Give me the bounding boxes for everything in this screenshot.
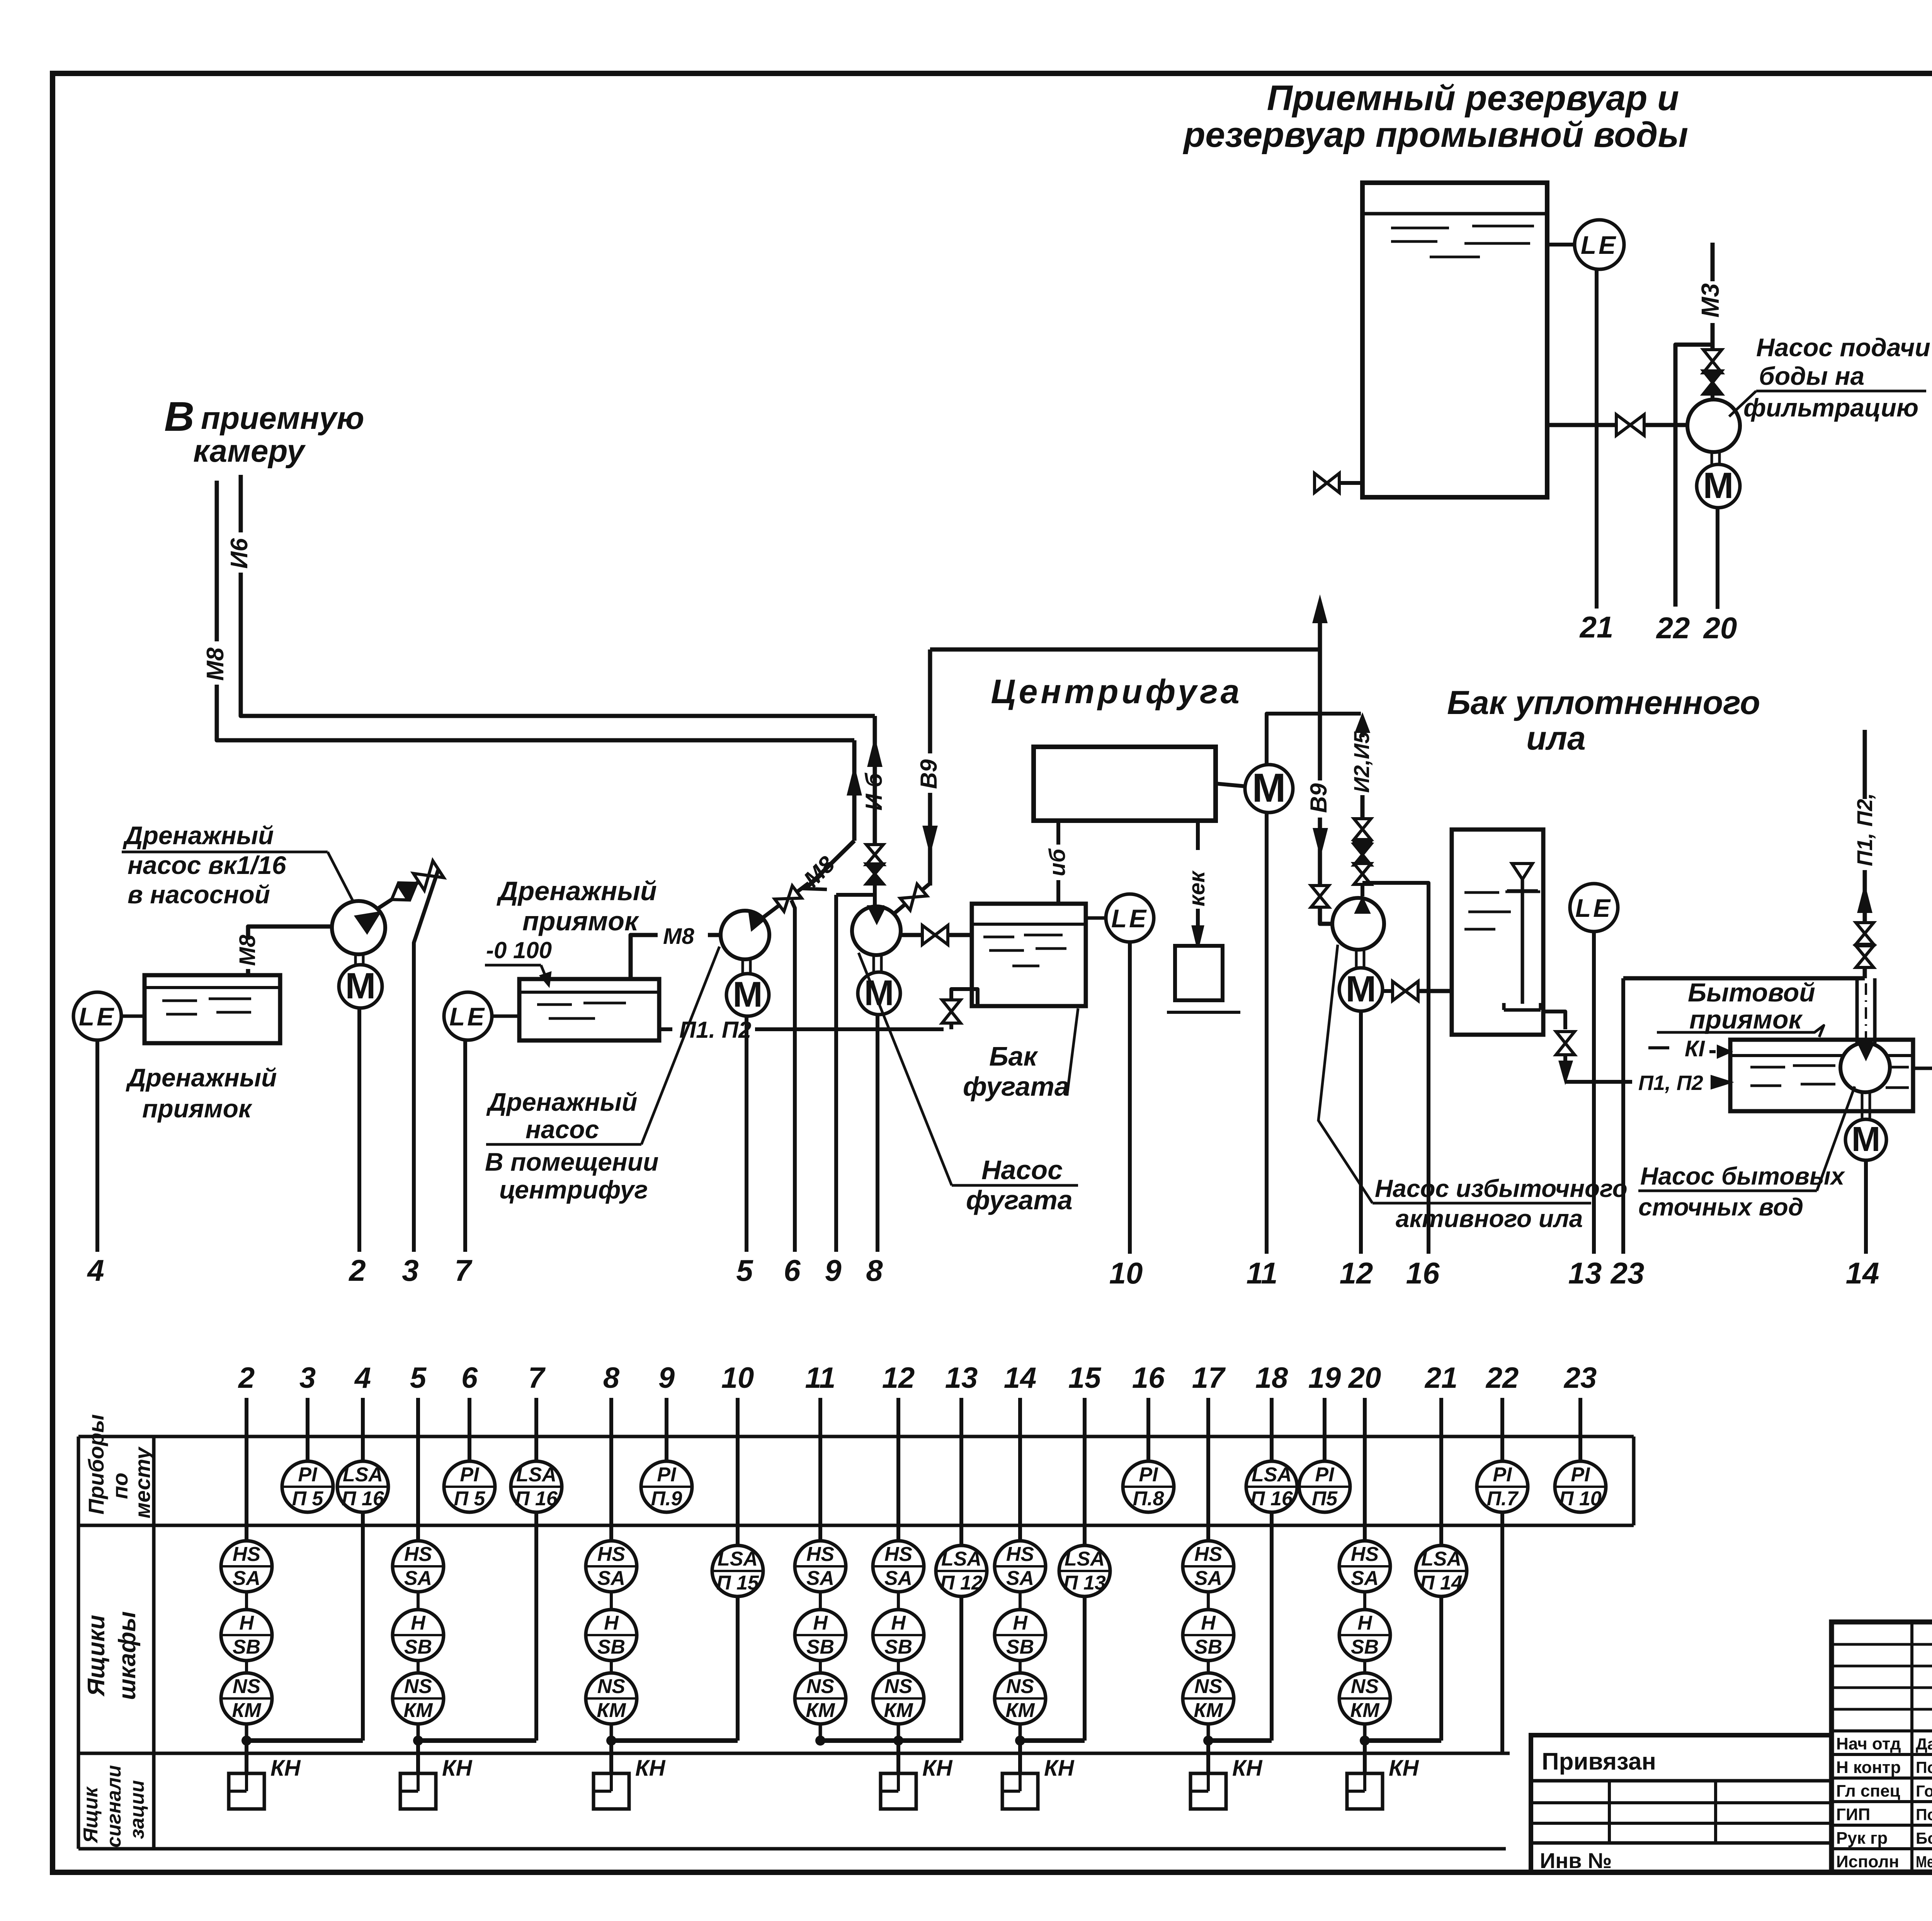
svg-text:PI: PI [1139,1464,1158,1486]
junction dot col 2 [241,1736,252,1746]
instrument PI П5 col 19 [1299,1461,1350,1512]
instrument NS/KM col 8 [586,1673,637,1724]
svg-text:LE: LE [79,1002,116,1031]
leader bak fugata [1067,1008,1078,1093]
svg-text:21: 21 [1579,610,1614,644]
underline [1638,1190,1817,1192]
instrument H/SB col 8 [586,1610,637,1661]
pump3 discharge triangle [750,913,763,930]
instrument H/SB col 17 [1183,1610,1234,1661]
tank: priyomny rezervuar [1362,183,1547,497]
label leader [1729,391,1756,416]
svg-text:HS: HS [806,1543,835,1566]
wire column 20 into cabinets row [1363,1398,1367,1541]
svg-text:КН: КН [635,1756,666,1781]
svg-text:23: 23 [1610,1256,1645,1290]
wire B9 into pump5 [1320,906,1333,924]
svg-text:H: H [604,1612,619,1634]
pump5 top triangle [1356,899,1369,913]
wire column 22 down to signal row [1500,1512,1504,1753]
wire column 11 into cabinets row [818,1398,822,1541]
KN box col 17 [1190,1773,1226,1809]
svg-text:Постникова: Постникова [1916,1758,1932,1776]
instrument HS/SA col 5 [393,1541,444,1592]
svg-text:В помещении: В помещении [485,1147,658,1176]
svg-text:КМ: КМ [884,1699,913,1722]
svg-text:PI: PI [657,1464,677,1486]
svg-text:П.7: П.7 [1487,1487,1519,1510]
svg-text:HS: HS [404,1543,432,1566]
signal line 10 [1128,942,1132,1254]
svg-text:NS: NS [884,1675,913,1698]
pump 1: drain pump VK1/16 [332,901,385,954]
wire LE tank1 [121,1015,145,1018]
wire column 14 into cabinets row [1018,1398,1022,1541]
junction dot col 14 [1015,1736,1025,1746]
wire I2,I5 riser [1361,730,1365,820]
svg-text:П 16: П 16 [1250,1487,1293,1510]
tank: bak fugata [972,904,1086,1006]
svg-text:H: H [1357,1612,1372,1634]
svg-text:КМ: КМ [806,1699,835,1722]
svg-text:22: 22 [1656,611,1690,645]
valve pump5 to tank [1393,981,1418,1001]
valve I6 stack 2 (filled) [866,864,883,884]
signal line 23 vertical [1621,978,1625,1254]
water line bytovoy [1730,1054,1913,1057]
valve P1P2 1 [1856,923,1874,944]
svg-text:иб: иб [1045,848,1070,876]
svg-text:13: 13 [1568,1256,1602,1290]
wire line 22 jog [1675,345,1713,607]
wire column 12 into cabinets row [896,1398,900,1541]
wire LSA col 15 down [1083,1596,1087,1741]
svg-text:16: 16 [1406,1256,1440,1290]
sig row line [1832,1847,1932,1850]
svg-text:22: 22 [1485,1362,1519,1394]
svg-text:SB: SB [1006,1636,1034,1658]
squiggles tank1 [162,1000,197,1002]
wire P1P2 stub [659,1027,672,1031]
svg-text:LSA: LSA [718,1548,758,1570]
wire [245,1661,248,1673]
svg-text:КI: КI [1685,1036,1706,1061]
valve I2I5 1 [1354,819,1371,840]
svg-text:Насос подачи: Насос подачи [1756,333,1930,362]
signal line 16 [1362,883,1429,1254]
leader to pump5 [1318,945,1372,1203]
svg-text:17: 17 [1192,1362,1226,1394]
svg-text:6: 6 [784,1253,801,1287]
pump4 top triangle [870,909,884,923]
wire [1363,1724,1367,1741]
instrument PI П.7 col 22 [1477,1461,1528,1512]
svg-text:по: по [108,1473,132,1499]
wire column 5 into cabinets row [416,1398,420,1541]
level sensor LE bak uplotnennogo [1570,884,1618,932]
svg-text:М3: М3 [1696,283,1724,318]
valve tank outlet [1556,1032,1575,1055]
wire LSA col 13 down [959,1596,963,1741]
svg-text:М: М [345,966,376,1006]
instrument PI П 5 col 6 [444,1461,495,1512]
wire pump1 suction [248,926,333,940]
valve P1P2 2 [1856,946,1874,967]
instrument LSA П 14 col 21 [1416,1545,1467,1596]
wire column 22 to instrument [1500,1398,1504,1461]
instrument NS/KM col 2 [221,1673,272,1724]
wire [1207,1592,1210,1610]
KN box col 12 [881,1773,916,1809]
svg-text:SB: SB [404,1636,432,1658]
wire [1207,1661,1210,1673]
svg-text:КН: КН [1389,1756,1419,1781]
svg-text:Гл спец: Гл спец [1836,1782,1900,1800]
signal line 6 [791,900,795,1252]
wire [1019,1592,1022,1610]
wire junction cols 2-4 [247,1738,363,1743]
svg-text:фугата: фугата [966,1185,1073,1215]
label K1 + arrow [1648,1046,1669,1049]
svg-text:LSA: LSA [1252,1464,1292,1486]
wire [1019,1661,1022,1673]
instrument LSA П 16 col 7 [511,1461,562,1512]
svg-text:12: 12 [882,1362,915,1394]
svg-text:шкафы: шкафы [114,1611,141,1700]
motor M pump 3 [726,974,769,1016]
wire column 21 [1439,1398,1443,1545]
svg-text:SA: SA [1351,1567,1379,1589]
squiggles bak uplotnennogo [1464,891,1499,894]
wire tank outlet [1543,1011,1565,1029]
wire to KN box col 2 [245,1741,248,1773]
sig row line [1832,1776,1932,1780]
svg-text:4: 4 [354,1362,371,1394]
svg-text:H: H [891,1612,906,1634]
table label column divider [152,1436,156,1849]
wire I6 vertical drop [873,716,877,842]
wire tank A to pump [1547,423,1688,427]
wire LE bak fugata [1086,916,1106,920]
pump6 standpipe [1855,978,1859,1043]
svg-text:LSA: LSA [516,1464,556,1486]
wire pump4 suction [901,933,972,937]
svg-text:в насосной: в насосной [128,880,270,909]
wire junction cols 20-21 [1365,1738,1441,1743]
signal line 2 [357,1008,361,1252]
svg-text:П1, П2: П1, П2 [1638,1071,1703,1095]
KN box col 14 [1002,1773,1038,1809]
svg-text:КМ: КМ [232,1699,262,1722]
wire kek drop [1196,821,1200,850]
wire LSA col 21 down [1439,1596,1443,1741]
svg-text:14: 14 [1004,1362,1037,1394]
svg-text:PI: PI [1315,1464,1335,1486]
svg-text:Дренажный: Дренажный [486,1088,637,1116]
valve pump4-B9 (rotated bowtie) [888,878,934,920]
svg-text:М: М [1345,969,1376,1010]
svg-text:NS: NS [806,1675,835,1698]
tank: drain pit 1 [145,975,280,1043]
level sensor LE tank2 [444,992,492,1040]
svg-text:центрифуг: центрифуг [499,1175,648,1204]
arrowhead K1 [1718,1046,1730,1057]
svg-text:И6: И6 [226,538,253,569]
svg-text:HS: HS [1194,1543,1223,1566]
wire junction cols 8-10 [611,1738,738,1743]
wire LSA col 18 down to junction [1270,1512,1274,1741]
signal line 20 [1716,508,1719,609]
instrument LSA П 15 col 10 [712,1545,763,1596]
svg-text:H: H [813,1612,828,1634]
svg-text:Постникова: Постникова [1916,1805,1932,1824]
instrument PI П.8 col 16 [1123,1461,1174,1512]
instrument LSA П 13 col 15 [1059,1545,1110,1596]
svg-text:H: H [411,1612,426,1634]
svg-text:Центрифуга: Центрифуга [991,672,1242,711]
table top line [78,1435,1634,1438]
svg-text:NS: NS [1351,1675,1379,1698]
leader bytovoy [1657,1025,1824,1037]
svg-text:11: 11 [1247,1256,1278,1290]
wire LSA col 10 down [736,1596,740,1741]
svg-text:боды на: боды на [1759,362,1864,390]
instrument H/SB col 5 [393,1610,444,1661]
svg-text:3: 3 [402,1253,418,1287]
valve pump4 suction [922,925,948,945]
svg-text:П 16: П 16 [515,1487,558,1510]
svg-text:КН: КН [922,1756,953,1781]
svg-text:SA: SA [1006,1567,1034,1589]
svg-text:приямок: приямок [1689,1005,1803,1034]
wire I6 drop [1056,821,1060,845]
svg-text:PI: PI [1571,1464,1590,1486]
kek container box [1175,946,1223,1000]
svg-text:HS: HS [884,1543,913,1566]
title block outline [1832,1622,1932,1872]
wire tee to line 9 [836,893,876,897]
flow arrow down B9 main [1314,829,1327,853]
wire to KN box col 5 [416,1741,420,1773]
wire column 3 to instrument [306,1398,310,1461]
water squiggles tank A [1391,227,1449,229]
svg-text:3: 3 [299,1362,316,1394]
svg-text:зации: зации [126,1780,148,1839]
wire column 17 into cabinets row [1206,1398,1210,1541]
sig row line [1832,1753,1932,1756]
instrument H/SB col 11 [795,1610,846,1661]
level sensor LE bak fugata [1106,894,1154,942]
water line tank2 [519,991,659,994]
svg-text:КМ: КМ [1350,1699,1380,1722]
svg-text:КН: КН [270,1756,301,1781]
svg-text:Дренажный: Дренажный [126,1063,277,1092]
sig row line [1832,1800,1932,1803]
table bottom line [78,1847,1506,1851]
instrument HS/SA col 20 [1339,1541,1390,1592]
underline nasos fugata [952,1184,1078,1187]
wire [610,1661,613,1673]
signal line 21 [1595,269,1599,609]
svg-text:18: 18 [1255,1362,1288,1394]
svg-text:КМ: КМ [597,1699,626,1722]
wire I6 riser to horizontal [241,573,875,716]
svg-text:PI: PI [1493,1464,1512,1486]
svg-text:П5: П5 [1312,1487,1338,1510]
svg-text:8: 8 [603,1362,620,1394]
wire M-centrifuge riser to I2I5 [1267,714,1361,765]
svg-text:Привязан: Привязан [1542,1748,1656,1775]
svg-text:SB: SB [884,1636,912,1658]
svg-text:4: 4 [87,1253,104,1287]
svg-text:12: 12 [1340,1256,1373,1290]
svg-text:П 15: П 15 [716,1572,759,1594]
underline [1372,1202,1591,1205]
wire B9 main riser [1318,620,1322,886]
valve tank A drain [1315,473,1339,493]
table left edge [77,1436,80,1849]
wire [1363,1661,1366,1673]
wire M5 to valve [1383,989,1393,993]
wire to KN box col 17 [1206,1741,1210,1773]
svg-text:NS: NS [233,1675,261,1698]
wire junction cols 17-18 [1208,1738,1272,1743]
wire P1P2 outlet [1565,1080,1632,1084]
svg-text:H: H [1013,1612,1028,1634]
svg-text:Инв №: Инв № [1540,1848,1612,1873]
kek arrow [1196,909,1200,925]
svg-text:Ящики: Ящики [83,1615,110,1697]
svg-text:Дренажный: Дренажный [497,876,657,906]
privyazan box [1531,1735,1832,1872]
wire column 18 to instrument [1270,1398,1274,1461]
svg-text:7: 7 [454,1253,473,1287]
water line tank1 [145,986,280,989]
svg-text:И2,И5: И2,И5 [1349,731,1374,793]
wire to KN box col 8 [609,1741,613,1773]
svg-text:2: 2 [238,1362,255,1394]
svg-text:20: 20 [1348,1362,1381,1394]
wire column 2 into cabinets row [245,1398,248,1541]
valve I6 stack 1 [866,845,883,865]
svg-text:LSA: LSA [343,1464,383,1486]
svg-text:П 5: П 5 [292,1487,324,1510]
wire column 19 to instrument [1323,1398,1327,1461]
instrument LSA П 12 col 13 [936,1545,987,1596]
svg-text:И б: И б [861,772,887,811]
wire column 10 [736,1398,740,1545]
valve I2I5 3 [1354,864,1371,884]
wire tank A drain [1340,481,1362,485]
sig empty row line [1832,1665,1932,1668]
svg-text:Насос избыточного: Насос избыточного [1375,1175,1628,1202]
wire LSA col 4 down to junction [361,1512,365,1741]
instrument PI П 5 col 3 [282,1461,333,1512]
wire B9 left branch [928,649,932,753]
pump 6: nasos bytovykh stochnykh vod [1840,1043,1890,1092]
flow arrow up I6 [869,741,881,766]
svg-text:LE: LE [449,1002,486,1031]
wire into pump A [1711,392,1714,399]
wire I6 riser upper [239,475,243,532]
svg-text:LSA: LSA [1065,1548,1105,1570]
wire column 9 to instrument [665,1398,668,1461]
arrow up P1P2 [1859,888,1871,912]
flow arrow down B9 [924,827,936,851]
pump1 discharge triangle [356,913,379,933]
svg-text:NS: NS [597,1675,626,1698]
wire [819,1661,822,1673]
svg-text:П 10: П 10 [1559,1487,1602,1510]
svg-text:П1, П2,: П1, П2, [1852,793,1877,866]
instrument LSA П 16 col 18 [1246,1461,1297,1512]
instrument HS/SA col 2 [221,1541,272,1592]
KN box col 8 [594,1773,629,1809]
svg-text:фугата: фугата [963,1071,1070,1102]
instrument LSA П 16 col 4 [337,1461,388,1512]
signal line 13 [1592,932,1596,1254]
svg-text:7: 7 [528,1362,546,1394]
signal line 5 [745,1016,748,1252]
wire [417,1724,420,1741]
svg-text:10: 10 [1109,1256,1143,1290]
instrument NS/KM col 11 [795,1673,846,1724]
instrument HS/SA col 17 [1183,1541,1234,1592]
label underline [122,851,328,853]
wire [819,1592,822,1610]
svg-text:10: 10 [721,1362,754,1394]
svg-text:-0 100: -0 100 [486,937,552,963]
svg-text:NS: NS [1006,1675,1034,1698]
svg-text:20: 20 [1703,611,1737,645]
water level mark across stem [1505,891,1540,893]
motor M centrifuge [1245,765,1293,813]
svg-text:21: 21 [1424,1362,1458,1394]
instrument H/SB col 2 [221,1610,272,1661]
wire to KN box col 12 [896,1741,900,1773]
arrow up B9 riser [1314,599,1326,622]
svg-text:SB: SB [233,1636,260,1658]
wire junction cols 5-7 [418,1738,536,1743]
kek container base line [1167,1011,1240,1014]
svg-text:Насос бытовых: Насос бытовых [1640,1162,1845,1190]
svg-text:LE: LE [1575,894,1612,922]
pump A: nasos podachi vody [1687,399,1740,452]
valve M3 lower (filled) [1703,371,1722,394]
svg-text:активного ила: активного ила [1396,1205,1583,1232]
valve pump3 discharge (rotated bowtie) [758,877,813,924]
level sensor LE tank A [1575,220,1624,269]
wire horizontal to standpipe [1623,976,1865,981]
signal line 9 [834,895,838,1252]
svg-text:16: 16 [1132,1362,1165,1394]
funnel symbol in tank [1512,864,1532,879]
svg-text:П 16: П 16 [342,1487,384,1510]
svg-text:HS: HS [1351,1543,1379,1566]
sig empty row line [1832,1708,1932,1711]
flow arrow up M8 [848,770,861,794]
svg-text:П1. П2: П1. П2 [679,1017,751,1043]
arrowhead into tank [1712,1076,1730,1088]
sig row line [1832,1729,1932,1732]
svg-text:М8: М8 [235,935,260,966]
pump A discharge triangle [1706,400,1719,416]
instrument PI П 10 col 23 [1555,1461,1606,1512]
wire valve to tank [1418,989,1452,993]
pump6 inlet triangle [1859,1044,1873,1059]
sig empty row line [1832,1686,1932,1689]
svg-text:М: М [733,974,762,1014]
